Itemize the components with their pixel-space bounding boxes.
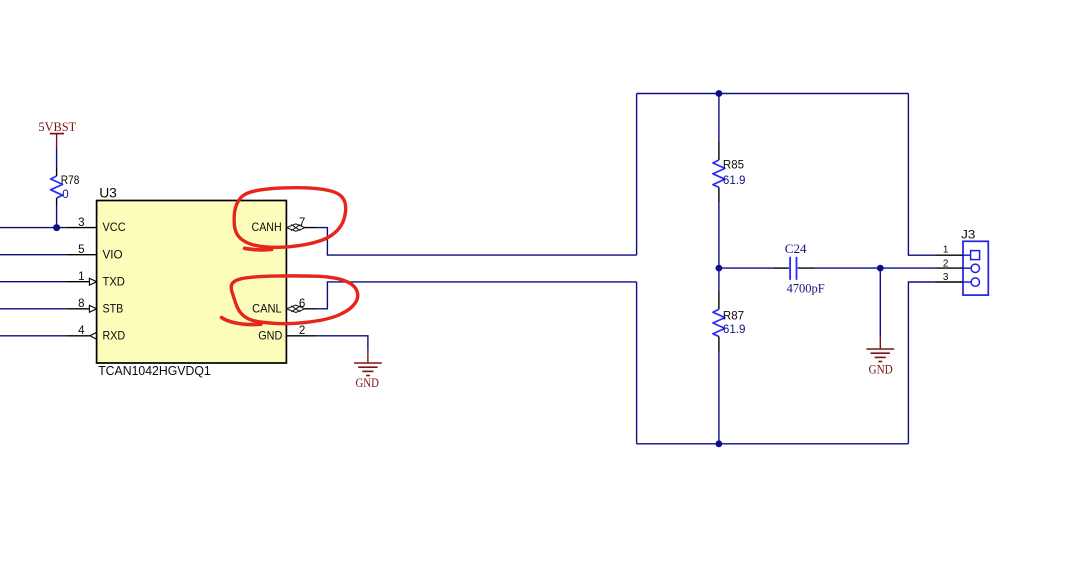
junction node top	[716, 90, 723, 97]
wire bottom bus	[637, 443, 909, 445]
wire middle junction to R87	[718, 268, 720, 291]
svg-text:3: 3	[78, 216, 84, 229]
ground GND (right)	[866, 336, 894, 377]
wire CANL	[317, 282, 637, 309]
pin 5 VIO	[0, 243, 123, 261]
svg-text:RXD: RXD	[103, 328, 126, 342]
wire top bus	[637, 93, 909, 95]
svg-text:TXD: TXD	[103, 274, 126, 288]
svg-text:3: 3	[943, 272, 949, 283]
svg-text:VCC: VCC	[103, 220, 126, 234]
J3 pin 3	[935, 272, 980, 286]
svg-text:61.9: 61.9	[723, 323, 746, 336]
J3 pin 2	[935, 259, 980, 273]
svg-text:8: 8	[78, 297, 84, 310]
wire right vertical upper (top bus to J3 pin 1)	[908, 94, 934, 256]
pin 8 STB	[0, 297, 123, 315]
wire left vertical up (CANH to top)	[636, 94, 638, 256]
pin 3 VCC	[67, 216, 126, 234]
svg-text:VIO: VIO	[103, 247, 123, 261]
svg-text:1: 1	[943, 245, 949, 256]
svg-text:4700pF: 4700pF	[787, 280, 825, 295]
junction node VCC	[53, 224, 60, 231]
wire R85 to middle junction	[718, 203, 720, 268]
wire CANH	[317, 228, 637, 256]
J3 pin 1	[935, 245, 980, 260]
wire top junction to R85	[718, 94, 720, 142]
capacitor C24	[774, 241, 825, 295]
svg-text:61.9: 61.9	[723, 174, 746, 187]
svg-text:CANL: CANL	[252, 301, 282, 315]
wire GND pin to ground	[317, 336, 368, 350]
wire middle junction to C24	[719, 267, 774, 269]
junction node middle right	[877, 265, 884, 272]
svg-text:7: 7	[299, 216, 305, 229]
wire C24 to right junction	[815, 267, 881, 269]
svg-text:R78: R78	[61, 174, 80, 187]
svg-text:4: 4	[78, 324, 85, 337]
pin 7 CANH	[252, 216, 317, 234]
pin 6 CANL	[252, 297, 317, 315]
wire right vertical lower (bottom bus to J3 pin 3)	[908, 282, 934, 444]
resistor R87	[713, 291, 746, 353]
svg-text:GND: GND	[356, 376, 379, 390]
IC U3 body	[97, 184, 287, 378]
wire left edge to VCC	[0, 227, 67, 229]
wire 5VBST to R78	[56, 147, 58, 166]
resistor R78	[51, 166, 80, 205]
svg-text:C24: C24	[785, 241, 807, 256]
svg-text:GND: GND	[258, 328, 282, 342]
wire right junction to ground	[879, 268, 881, 335]
wire R78 to VCC node	[56, 205, 58, 228]
resistor R85	[713, 141, 746, 203]
svg-text:R87: R87	[723, 309, 744, 322]
svg-text:STB: STB	[103, 301, 124, 315]
wire right junction to J3 pin 2	[880, 267, 934, 269]
svg-text:6: 6	[299, 297, 305, 310]
svg-text:2: 2	[943, 259, 949, 270]
svg-text:0: 0	[62, 188, 68, 201]
svg-text:U3: U3	[99, 184, 117, 200]
svg-text:2: 2	[299, 324, 305, 337]
svg-text:TCAN1042HGVDQ1: TCAN1042HGVDQ1	[98, 363, 211, 378]
svg-text:5VBST: 5VBST	[38, 119, 76, 134]
junction node middle left	[716, 265, 723, 272]
wire left vertical down (CANL to bottom)	[636, 282, 638, 444]
svg-text:GND: GND	[869, 363, 893, 377]
annotation circle CANH	[234, 188, 346, 250]
connector J3	[961, 227, 988, 295]
annotation circle CANL	[222, 276, 358, 325]
wire R87 to bottom junction	[718, 353, 720, 444]
pin 1 TXD	[0, 270, 125, 288]
ground GND (left)	[354, 350, 382, 390]
svg-text:R85: R85	[723, 159, 744, 172]
power symbol 5VBST	[38, 119, 76, 148]
svg-text:J3: J3	[961, 227, 976, 241]
junction node bottom	[716, 440, 723, 447]
svg-text:1: 1	[78, 270, 84, 283]
pin 4 RXD	[0, 324, 125, 342]
pin 2 GND	[258, 324, 316, 342]
svg-text:5: 5	[78, 243, 84, 256]
svg-text:CANH: CANH	[252, 220, 282, 234]
